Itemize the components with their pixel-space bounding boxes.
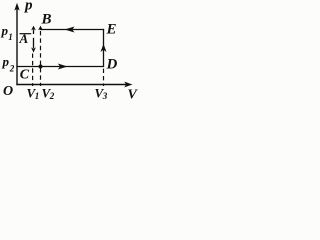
right line E-D	[103, 29, 105, 67]
svg-text:D: D	[106, 57, 118, 73]
svg-text:1: 1	[35, 91, 40, 101]
V axis	[16, 84, 129, 86]
svg-text:A: A	[19, 31, 29, 46]
down arrow at A (process A down)	[33, 38, 35, 48]
arrow on right line (pointing up, D to E)	[101, 44, 107, 52]
svg-text:2: 2	[49, 91, 55, 101]
P1 level tick	[20, 33, 32, 35]
svg-text:p: p	[1, 23, 9, 38]
dashed vertical V2 line (below B)	[40, 31, 42, 86]
dashed vertical V3 line (below D)	[103, 69, 105, 86]
svg-text:1: 1	[8, 32, 13, 42]
arrow on top line (pointing left, E to B)	[65, 27, 75, 33]
svg-text:2: 2	[9, 63, 15, 73]
svg-text:3: 3	[102, 91, 108, 101]
svg-text:O: O	[3, 84, 13, 99]
arrow on bottom line (pointing right, C to D)	[58, 64, 68, 70]
svg-text:p: p	[2, 54, 10, 69]
junction dot on bottom line at V2	[39, 65, 43, 69]
P axis	[16, 6, 18, 85]
svg-text:V: V	[128, 88, 139, 103]
svg-text:C: C	[20, 68, 30, 83]
V axis arrowhead	[124, 82, 132, 88]
dashed vertical V1 line (through A)	[32, 54, 34, 87]
up arrow at A (process A up)	[33, 29, 35, 34]
up arrowhead at B on dashed V2 line	[38, 26, 43, 31]
svg-text:E: E	[106, 22, 117, 38]
P axis arrowhead	[14, 3, 19, 11]
top line B-E	[40, 29, 104, 31]
svg-text:p: p	[23, 0, 33, 14]
svg-text:B: B	[41, 12, 52, 28]
bottom line C-D	[16, 66, 104, 68]
